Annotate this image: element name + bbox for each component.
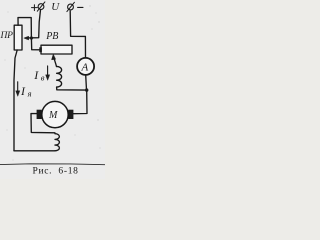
plus sign [32,5,38,11]
brush left [37,110,42,119]
brush right [68,110,73,119]
label Ia with arrow [16,82,32,99]
wire coil bottom to left rail [14,150,55,152]
svg-text:в: в [41,72,45,82]
wire ammeter down to junction [85,75,88,90]
inductor field winding [57,66,62,87]
label Iv with arrow [33,66,49,83]
wire left rail up to PR bottom [14,50,17,151]
resistor RV (field rheostat) [41,45,72,54]
svg-text:Рис. 6-18: Рис. 6-18 [33,167,79,177]
svg-text:А: А [81,61,89,73]
wire PR top to junction [18,18,31,38]
resistor PR (starting rheostat) [14,25,22,50]
wire from minus terminal down, right, down to ammeter [70,11,85,57]
motor M armature [42,101,68,127]
svg-text:РВ: РВ [45,31,58,42]
node junction field/armature [85,88,88,91]
wire junction down to motor right brush [74,90,88,114]
wire junction down to RV left terminal [31,38,40,50]
inductor commutating winding [55,134,59,151]
rule above caption [0,163,105,166]
svg-text:М: М [48,110,58,121]
node junction on feed wire [30,36,33,39]
terminal minus [67,2,75,11]
wire field winding bottom to right rail [57,87,87,90]
wire left brush down to commutating coil [31,114,55,133]
RV slider arrow [52,54,57,66]
svg-text:ПР: ПР [0,31,13,41]
minus sign [78,6,83,8]
svg-text:я: я [27,88,32,98]
wire from plus terminal down and left to PR slider [24,10,41,40]
svg-text:U: U [51,1,60,13]
ammeter A [77,58,94,75]
terminal plus [37,2,45,11]
